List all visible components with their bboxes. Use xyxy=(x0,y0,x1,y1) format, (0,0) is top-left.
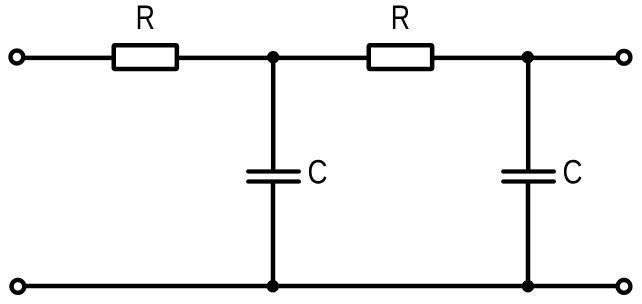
wire top rail middle segment xyxy=(177,56,369,61)
wire top rail right segment xyxy=(432,56,616,61)
svg-text:R: R xyxy=(136,0,155,37)
node D junction dot xyxy=(522,280,534,292)
terminal bottom-right xyxy=(618,280,631,293)
terminal bottom-left xyxy=(12,280,25,293)
svg-text:R: R xyxy=(391,0,410,37)
node A junction dot xyxy=(267,51,279,63)
wire capacitor C2 upper lead xyxy=(526,58,531,170)
wire capacitor C1 upper lead xyxy=(271,58,276,170)
capacitor C1 xyxy=(248,172,298,182)
wire top rail left segment xyxy=(25,56,114,61)
resistor R2 xyxy=(369,45,432,69)
wire capacitor C1 lower lead xyxy=(271,184,276,287)
wire bottom rail xyxy=(26,284,616,289)
node C junction dot xyxy=(267,280,279,292)
resistor R1 xyxy=(114,45,177,69)
wire capacitor C2 lower lead xyxy=(526,184,531,287)
node B junction dot xyxy=(522,51,534,63)
terminal top-left xyxy=(11,51,24,64)
terminal top-right xyxy=(618,51,631,64)
capacitor C2 xyxy=(503,172,554,182)
svg-text:C: C xyxy=(308,153,328,191)
svg-text:C: C xyxy=(563,153,583,191)
